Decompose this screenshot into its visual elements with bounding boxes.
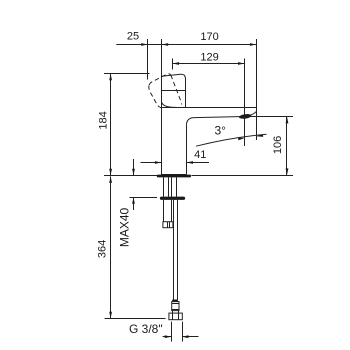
left dim line 364 bbox=[110, 176, 112, 318]
body right edge bbox=[186, 126, 188, 175]
arrow 106 top bbox=[286, 117, 289, 124]
bottom dim arrow left bbox=[165, 335, 172, 338]
extension line x=244.5 (aerator axis upper) bbox=[244, 59, 246, 147]
left dim line 184 bbox=[110, 74, 112, 176]
hose right line bbox=[177, 200, 179, 300]
nut inner line left bbox=[172, 313, 174, 320]
bottom extension right x=182.9 bbox=[182, 322, 184, 342]
106 dim line bbox=[286, 117, 288, 175]
41 arrow right bbox=[187, 161, 194, 164]
dashed handle top edge bbox=[149, 74, 171, 85]
fitting inner bottom line bbox=[172, 309, 179, 311]
handle solid top edge bbox=[162, 74, 185, 78]
fitting inner top line bbox=[172, 303, 179, 305]
41 arrow left bbox=[155, 161, 162, 164]
stud nut box bbox=[163, 222, 173, 228]
shank line 1 bbox=[163, 177, 165, 196]
svg-text:MAX40: MAX40 bbox=[117, 208, 131, 248]
MAX40 bottom extension y=197.3 bbox=[130, 197, 158, 199]
aerator blob bbox=[239, 113, 252, 119]
arrow MAX40 down bbox=[132, 169, 135, 176]
base plate bbox=[157, 175, 191, 178]
MAX40 dim upper arrow line bbox=[133, 159, 135, 175]
svg-text:G 3/8": G 3/8" bbox=[129, 322, 163, 336]
extension line bottom y=318.8 bbox=[105, 318, 166, 320]
106 top extension bbox=[245, 116, 293, 118]
arc arrow right bbox=[256, 134, 263, 137]
extension line x=172.5 bbox=[172, 59, 174, 70]
handle right edge bbox=[185, 78, 187, 108]
hose fitting box bbox=[172, 302, 179, 311]
MAX40 dim lower arrow line bbox=[133, 197, 135, 210]
svg-text:106: 106 bbox=[272, 136, 284, 154]
fitting neck left bbox=[172, 311, 174, 314]
shank line 4 bbox=[176, 177, 178, 196]
svg-text:170: 170 bbox=[200, 31, 218, 43]
stud left edge bbox=[163, 200, 165, 222]
arrow at shared extension 161.7 bbox=[162, 43, 169, 46]
3 degree arc bbox=[196, 134, 267, 146]
G38 nut box bbox=[169, 313, 182, 320]
svg-text:129: 129 bbox=[200, 52, 218, 64]
dimension line 129 bbox=[173, 63, 245, 65]
bottom dim right segment bbox=[182, 336, 199, 338]
washer bar bbox=[160, 197, 185, 200]
shank line 3 bbox=[171, 177, 173, 196]
handle divider bbox=[162, 90, 185, 92]
extension+spout tip right x=256.3 bbox=[256, 39, 258, 140]
arrow 184 top bbox=[109, 74, 112, 81]
arrow 364 bottom bbox=[109, 312, 112, 319]
hose end tick bbox=[172, 300, 178, 302]
dashed handle left edge bbox=[149, 85, 160, 107]
arrow 129 left bbox=[173, 62, 180, 65]
bottom extension left x=170.1 bbox=[171, 322, 173, 342]
extension+body left edge x=161.6 bbox=[161, 39, 163, 175]
arrow 364 top bbox=[109, 176, 112, 183]
stud nut divider 2 bbox=[169, 222, 171, 228]
spout top line bbox=[160, 107, 256, 109]
shank line 2 bbox=[168, 177, 170, 196]
spout underside bbox=[186, 117, 245, 126]
stud right edge bbox=[171, 200, 173, 222]
arc arrow left bbox=[238, 138, 245, 141]
bottom dim arrow right bbox=[182, 335, 189, 338]
arrow 184 bottom bbox=[109, 169, 112, 176]
hose left line bbox=[173, 200, 175, 300]
41 dim left segment bbox=[141, 162, 162, 164]
aerator tip curve bbox=[251, 112, 256, 115]
svg-text:364: 364 bbox=[96, 240, 108, 258]
svg-text:41: 41 bbox=[194, 149, 206, 161]
svg-text:184: 184 bbox=[97, 111, 109, 129]
dashed handle right edge bbox=[171, 75, 182, 105]
svg-text:25: 25 bbox=[127, 31, 139, 43]
extension line x=148 bbox=[147, 39, 149, 80]
body bottom edge bbox=[162, 174, 187, 176]
handle chin curve bbox=[162, 102, 176, 107]
bottom dim left segment bbox=[163, 336, 172, 338]
extension line y=73.7 top of handle bbox=[104, 73, 150, 75]
arrow 106 bottom bbox=[286, 168, 289, 175]
fitting neck right bbox=[178, 311, 180, 314]
svg-text:3°: 3° bbox=[215, 124, 227, 138]
countertop line left y=175.4 bbox=[104, 175, 157, 177]
nut inner line right bbox=[178, 313, 180, 320]
stud nut divider bbox=[167, 222, 169, 228]
41 dim right segment bbox=[187, 162, 210, 164]
arrow 129 right bbox=[238, 62, 245, 65]
arrow MAX40 up bbox=[132, 197, 135, 204]
arrow outside-left of 25 bbox=[141, 43, 148, 46]
countertop line right y=175.4 bbox=[192, 175, 294, 177]
dimension line 25/170 bbox=[116, 44, 256, 46]
arrow right end 170 bbox=[250, 43, 257, 46]
